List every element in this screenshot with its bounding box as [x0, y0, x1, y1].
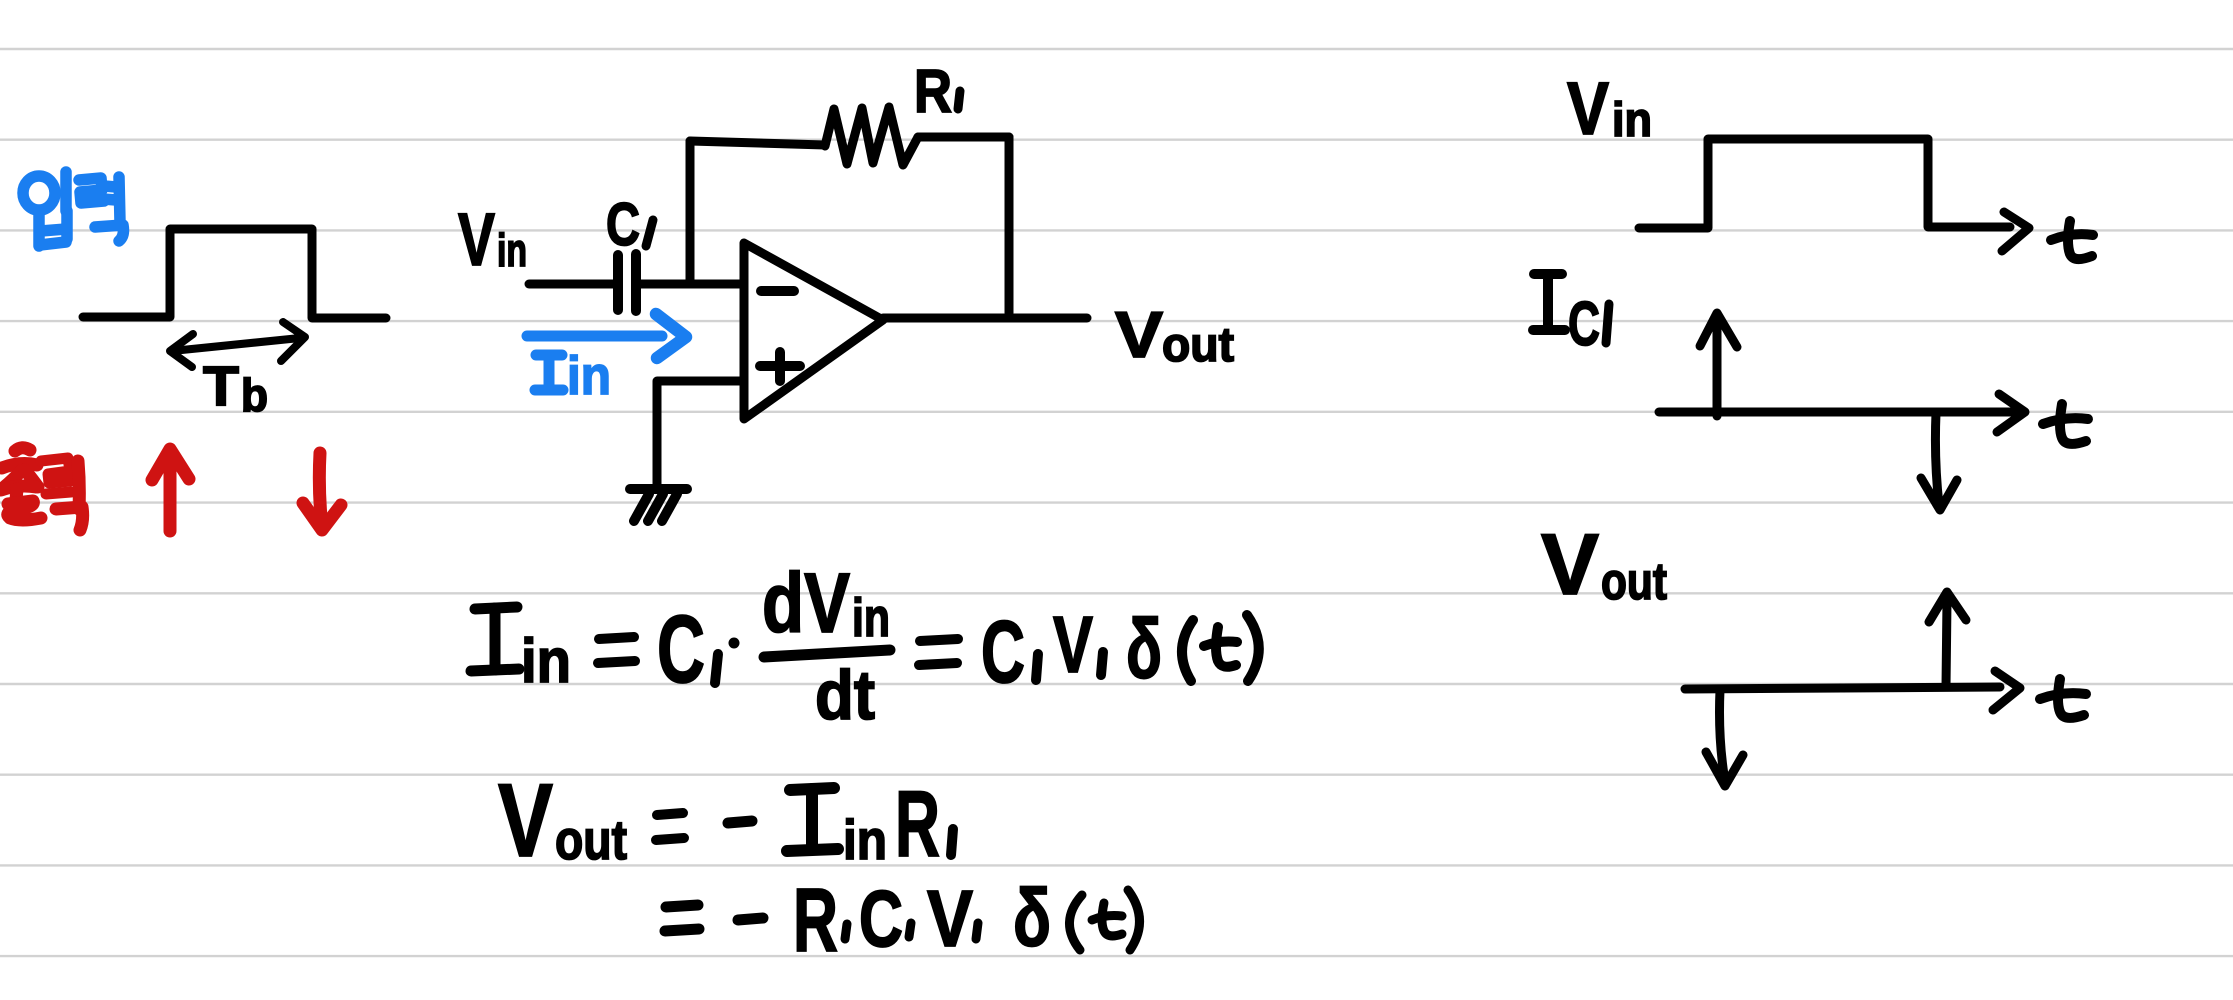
eq1 equals 2 — [919, 639, 958, 665]
svg-text:in: in — [567, 346, 611, 406]
eq3 R1C1V1delta(t) — [793, 871, 1051, 971]
svg-text:δ: δ — [1013, 873, 1051, 964]
svg-text:in: in — [843, 808, 887, 871]
eq2 in subscript — [843, 808, 887, 871]
eq1 fraction bar — [764, 650, 890, 657]
label Vout (graph 3) — [1541, 517, 1667, 613]
wire feedback right vertical — [1005, 137, 1014, 313]
svg-text:C: C — [606, 191, 640, 258]
eq1 I (hand I with bars) — [471, 607, 519, 671]
blue current arrow Iin — [527, 314, 686, 358]
svg-text:R: R — [895, 771, 940, 876]
svg-text:V: V — [1053, 600, 1093, 689]
wire feedback top — [690, 141, 825, 145]
label R1 — [914, 57, 952, 125]
label 입력 (input, blue handwriting) — [23, 172, 124, 246]
label 출력 (output, red handwriting) — [1, 448, 83, 530]
label Vout (circuit output) — [1115, 298, 1234, 372]
eq2 I (hand I with bars) — [787, 788, 838, 851]
eq3 equals — [665, 905, 699, 931]
label t (graph 3) — [2040, 679, 2086, 718]
up impulse (graph 3) — [1929, 592, 1966, 687]
svg-text:C: C — [657, 596, 705, 703]
time axis (graph 2) — [1659, 394, 2025, 432]
eq1 in subscript — [521, 627, 571, 696]
svg-text:R: R — [914, 57, 952, 125]
label Vin (circuit input) — [458, 198, 527, 281]
label t (graph 2) — [2043, 404, 2088, 444]
resistor R1 — [825, 107, 918, 165]
down impulse (graph 2) — [1921, 413, 1957, 510]
op-amp U1 — [744, 243, 883, 419]
Vin pulse waveform (graph 1) — [1639, 139, 2010, 228]
svg-text:in: in — [1612, 94, 1652, 147]
svg-text:V: V — [927, 874, 973, 963]
wire C1 to inverting input — [636, 280, 744, 289]
svg-text:out: out — [1601, 553, 1667, 611]
capacitor C1 — [618, 254, 636, 311]
wire feedback left vertical — [686, 141, 695, 282]
svg-text:out: out — [1162, 319, 1234, 372]
eq3 minus — [738, 918, 763, 920]
up impulse (graph 2) — [1700, 313, 1737, 416]
time axis (graph 3) — [1685, 671, 2020, 710]
svg-text:C: C — [981, 602, 1025, 701]
svg-text:dV: dV — [762, 556, 850, 650]
red up arrow — [152, 449, 189, 531]
eq2 equals — [656, 813, 684, 840]
down impulse (graph 3) — [1706, 690, 1743, 786]
label Tb — [203, 354, 268, 421]
eq1 equals 1 — [598, 637, 635, 663]
label t (graph 1) — [2051, 221, 2093, 259]
eq2 Vout — [498, 763, 627, 879]
wire non-inverting input — [657, 381, 744, 486]
wire feedback top right — [918, 133, 1009, 142]
svg-text:V: V — [458, 198, 495, 281]
svg-text:in: in — [497, 224, 527, 276]
eq1 denominator dt — [815, 656, 875, 734]
svg-text:T: T — [203, 354, 239, 417]
svg-text:C: C — [1568, 290, 1600, 359]
ground — [630, 489, 687, 521]
svg-text:V: V — [1567, 67, 1609, 150]
eq1 C1V1delta(t) — [981, 600, 1162, 701]
svg-text:in: in — [521, 627, 571, 696]
svg-text:dt: dt — [815, 656, 875, 734]
svg-text:out: out — [555, 808, 627, 871]
svg-text:in: in — [852, 588, 890, 648]
wire Vin to C1 — [529, 280, 615, 289]
svg-text:V: V — [1115, 298, 1163, 371]
input pulse waveform — [83, 229, 386, 318]
svg-text:C: C — [859, 874, 903, 963]
label Ic1 (graph 2) — [1533, 274, 1565, 330]
red down arrow — [303, 453, 341, 530]
wire output — [883, 314, 1087, 323]
svg-text:b: b — [241, 369, 268, 421]
svg-text:δ: δ — [1126, 602, 1162, 696]
eq1 multiplication dot — [729, 638, 740, 649]
svg-text:R: R — [793, 871, 838, 971]
Tb width double arrow — [170, 322, 305, 367]
label Iin (blue) — [535, 355, 563, 390]
eq2 R1 — [895, 771, 940, 876]
op-amp plus sign — [760, 352, 800, 381]
t axis arrowhead (graph 1) — [2002, 212, 2029, 251]
eq1 numerator dVin — [762, 556, 890, 650]
svg-text:V: V — [498, 763, 553, 879]
label C1 — [606, 191, 640, 258]
svg-text:V: V — [1541, 517, 1599, 613]
op-amp minus sign — [761, 286, 794, 296]
eq1 C1 — [657, 596, 705, 703]
eq2 minus — [728, 821, 752, 823]
label Vin (graph 1) — [1567, 67, 1652, 150]
